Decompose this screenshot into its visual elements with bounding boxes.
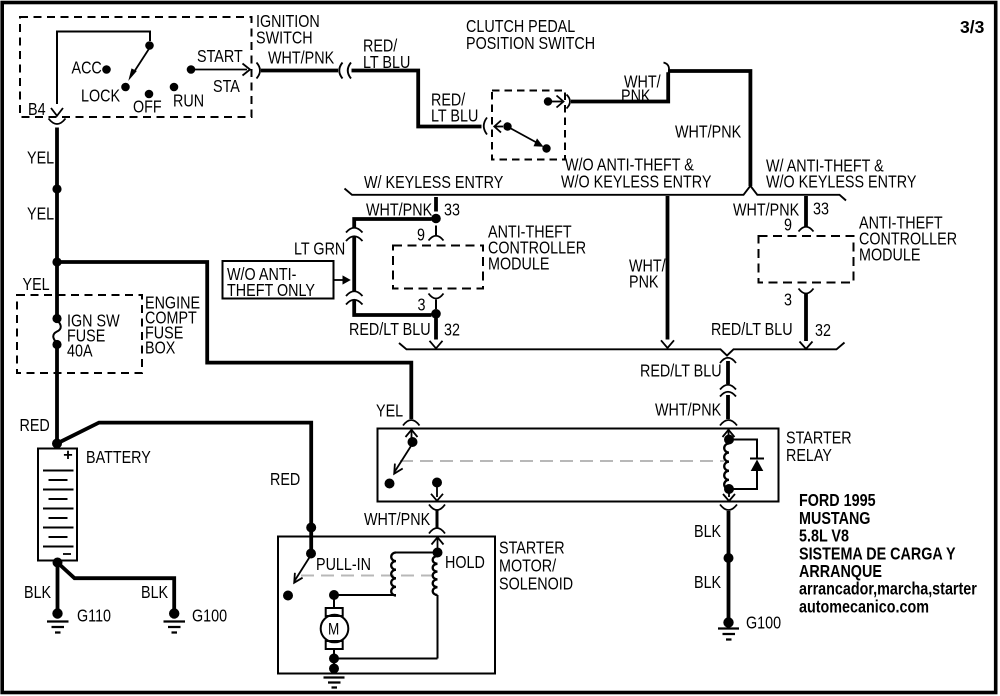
- wire RED/LT BLU bus tap to starter relay (x=728): [640, 358, 736, 420]
- svg-text:9: 9: [784, 216, 792, 235]
- ground G100 right: [718, 614, 781, 639]
- right module pin 33: [733, 196, 829, 227]
- wire BLK relay to G100 right (x=728): [694, 505, 737, 619]
- svg-text:CLUTCH PEDAL: CLUTCH PEDAL: [466, 18, 575, 37]
- svg-text:PNK: PNK: [629, 273, 659, 292]
- terminal B4 with down arrow: [28, 101, 63, 120]
- inline connector pair lower on x=354: [346, 291, 363, 304]
- relay coil input terminal: [720, 420, 737, 445]
- right module pin 3 connector and pin 32 drop: [711, 289, 831, 349]
- svg-text:STARTER: STARTER: [499, 539, 565, 558]
- svg-text:arrancador,marcha,starter: arrancador,marcha,starter: [799, 580, 977, 599]
- svg-text:G110: G110: [77, 607, 111, 626]
- clutch switch arm: [510, 128, 551, 153]
- relay coil: [724, 444, 729, 490]
- bus RED/LT BLU lower (y=349) with tap at x=727: [399, 343, 845, 356]
- svg-text:RED/LT BLU: RED/LT BLU: [349, 321, 431, 340]
- connector below B4: [49, 119, 66, 125]
- svg-text:RELAY: RELAY: [786, 447, 832, 466]
- engine compartment fuse box (dashed): [17, 294, 200, 373]
- clutch switch output terminal arrow: [544, 96, 564, 108]
- svg-text:HOLD: HOLD: [445, 554, 485, 573]
- svg-text:RED/LT BLU: RED/LT BLU: [711, 321, 793, 340]
- connector at clutch switch output: [567, 95, 571, 109]
- svg-text:WHT/PNK: WHT/PNK: [366, 201, 432, 220]
- svg-text:3: 3: [784, 291, 792, 310]
- wire WHT/PNK clutch switch to junction: [571, 72, 668, 106]
- inline connector relay to solenoid (x=437): [364, 505, 445, 534]
- svg-text:RUN: RUN: [173, 92, 204, 111]
- solenoid internal ground node: [329, 654, 438, 674]
- solenoid internal dashed link: [301, 575, 435, 577]
- anti-theft controller module left (dashed box): [393, 223, 586, 288]
- splice dot YEL upper: [52, 184, 61, 193]
- svg-text:WHT/PNK: WHT/PNK: [655, 401, 721, 420]
- svg-text:33: 33: [444, 201, 460, 220]
- svg-text:ACC: ACC: [72, 59, 102, 78]
- svg-text:BATTERY: BATTERY: [86, 449, 151, 468]
- W/O ANTI-THEFT ONLY callout box with arrow: [223, 261, 351, 300]
- svg-text:B4: B4: [28, 101, 46, 120]
- svg-text:32: 32: [815, 322, 831, 341]
- connector at corner: [664, 63, 670, 77]
- svg-text:POSITION SWITCH: POSITION SWITCH: [466, 35, 595, 54]
- starter motor/solenoid box: [278, 537, 573, 674]
- contact START with arrow to STA terminal: [187, 48, 250, 97]
- ignition switch internal wire: [57, 32, 150, 105]
- ground G110: [47, 607, 111, 632]
- svg-text:YEL: YEL: [27, 205, 54, 224]
- solenoid switch arm PULL-IN: [283, 556, 371, 601]
- svg-text:RED: RED: [270, 471, 300, 490]
- svg-text:LT BLU: LT BLU: [431, 107, 478, 126]
- wire WHT/PNK top run to splice: [668, 71, 750, 186]
- relay switch arm: [385, 446, 412, 489]
- relay clamp diode branch: [729, 440, 764, 490]
- svg-text:SOLENOID: SOLENOID: [499, 575, 573, 594]
- svg-text:ARRANQUE: ARRANQUE: [799, 563, 882, 582]
- svg-text:YEL: YEL: [23, 276, 50, 295]
- ground G100 left: [164, 607, 228, 632]
- contact RUN: [170, 83, 204, 111]
- ignition switch (dashed box): [20, 13, 320, 117]
- relay internal dashed link: [400, 460, 724, 462]
- svg-text:G100: G100: [192, 607, 227, 626]
- svg-text:RED/LT BLU: RED/LT BLU: [640, 362, 722, 381]
- svg-text:WHT/PNK: WHT/PNK: [675, 123, 741, 142]
- hold coil input from relay: [432, 537, 444, 557]
- svg-text:MOTOR/: MOTOR/: [499, 557, 557, 576]
- connector at clutch switch input: [484, 118, 487, 135]
- ignition switch rotor arm: [128, 48, 149, 81]
- svg-text:MODULE: MODULE: [488, 255, 549, 274]
- pull-in coil: [334, 553, 438, 596]
- title block: [799, 492, 977, 617]
- svg-text:40A: 40A: [67, 342, 93, 361]
- svg-text:RED: RED: [20, 417, 50, 436]
- svg-text:33: 33: [813, 200, 829, 219]
- relay YEL input terminal: [406, 430, 418, 447]
- svg-text:5.8L V8: 5.8L V8: [799, 527, 849, 546]
- svg-text:PULL-IN: PULL-IN: [316, 556, 371, 575]
- svg-text:SWITCH: SWITCH: [256, 29, 313, 48]
- svg-text:THEFT ONLY: THEFT ONLY: [227, 282, 315, 301]
- starter motor M: [321, 590, 349, 670]
- svg-text:STARTER: STARTER: [786, 429, 852, 448]
- svg-text:MUSTANG: MUSTANG: [799, 510, 870, 529]
- wire BLK battery negative to G100: [59, 564, 174, 609]
- left module pin 3 connector: [418, 294, 444, 319]
- svg-text:YEL: YEL: [27, 149, 54, 168]
- splice dot YEL lower: [52, 257, 61, 266]
- svg-text:automecanico.com: automecanico.com: [799, 598, 929, 617]
- hold coil: [433, 554, 485, 659]
- svg-text:STA: STA: [213, 78, 240, 97]
- wire WHT/PNK w/o antitheft drop (x=667.5): [629, 196, 674, 348]
- wire YEL branch to starter relay: [57, 262, 411, 421]
- inline connector pair upper on x=354: [346, 228, 363, 241]
- svg-text:3: 3: [418, 296, 426, 315]
- svg-text:W/ KEYLESS ENTRY: W/ KEYLESS ENTRY: [364, 174, 504, 193]
- wire YEL main trunk (x=57): [23, 128, 58, 449]
- solenoid battery terminal dots: [306, 523, 316, 559]
- svg-text:BLK: BLK: [24, 584, 51, 603]
- contact OFF: [133, 90, 162, 117]
- svg-text:YEL: YEL: [376, 402, 403, 421]
- wire RED/LT BLU to clutch switch: [352, 37, 482, 126]
- svg-text:9: 9: [417, 226, 425, 245]
- wire BLK battery negative to G110: [24, 558, 63, 610]
- clutch pedal position switch (dashed box): [466, 18, 595, 160]
- anti-theft controller module right (dashed box): [759, 214, 958, 282]
- contact ACC: [72, 59, 111, 78]
- left module pin 32 drop to bus: [349, 319, 460, 349]
- solenoid case ground: [324, 678, 345, 688]
- right module pin 9 connector: [784, 216, 814, 235]
- wire WHT/PNK ignition to connector: [261, 49, 338, 70]
- svg-text:W/O KEYLESS ENTRY: W/O KEYLESS ENTRY: [561, 173, 712, 192]
- svg-text:BLK: BLK: [694, 574, 721, 593]
- svg-text:LT GRN: LT GRN: [294, 240, 345, 259]
- starter relay box: [378, 429, 852, 502]
- svg-text:LT BLU: LT BLU: [363, 54, 410, 73]
- svg-text:W/O ANTI-THEFT &: W/O ANTI-THEFT &: [565, 156, 694, 175]
- fuse IGN SW FUSE 40A: [52, 312, 120, 361]
- splice dot at battery positive: [52, 439, 62, 449]
- left module pin 9 connector: [417, 226, 444, 245]
- svg-text:BLK: BLK: [694, 523, 721, 542]
- connector at STA output: [257, 63, 261, 79]
- svg-text:PNK: PNK: [621, 87, 651, 106]
- left module pin 33: [366, 197, 460, 223]
- svg-text:M: M: [328, 620, 339, 639]
- svg-text:BLK: BLK: [141, 584, 168, 603]
- relay coil output terminal: [723, 484, 735, 501]
- svg-text:W/O KEYLESS ENTRY: W/O KEYLESS ENTRY: [766, 173, 917, 192]
- svg-text:SISTEMA DE CARGA Y: SISTEMA DE CARGA Y: [799, 545, 956, 564]
- battery: [38, 449, 151, 561]
- wire RED battery to solenoid: [57, 423, 311, 527]
- inline connector C1: [339, 63, 351, 79]
- svg-text:START: START: [197, 48, 243, 67]
- bus WHT/PNK upper (y=195) with Y-splice at x=750: [345, 156, 917, 200]
- svg-text:BOX: BOX: [145, 339, 176, 358]
- svg-text:3/3: 3/3: [960, 17, 985, 37]
- connector YEL at relay: [403, 420, 420, 426]
- svg-text:WHT/PNK: WHT/PNK: [364, 511, 430, 530]
- svg-text:MODULE: MODULE: [859, 246, 920, 265]
- contact LOCK: [81, 83, 130, 106]
- svg-text:32: 32: [444, 321, 460, 340]
- svg-text:FORD 1995: FORD 1995: [799, 492, 876, 511]
- svg-text:OFF: OFF: [133, 98, 162, 117]
- svg-text:LOCK: LOCK: [81, 87, 120, 106]
- svg-text:WHT/PNK: WHT/PNK: [268, 49, 334, 68]
- svg-text:G100: G100: [746, 614, 781, 633]
- relay output terminal to solenoid: [431, 478, 443, 501]
- ignition switch pivot contact: [145, 41, 154, 50]
- wire pin33 to keyless splice (x=354): [354, 219, 431, 315]
- clutch switch input terminal arrow: [494, 121, 511, 133]
